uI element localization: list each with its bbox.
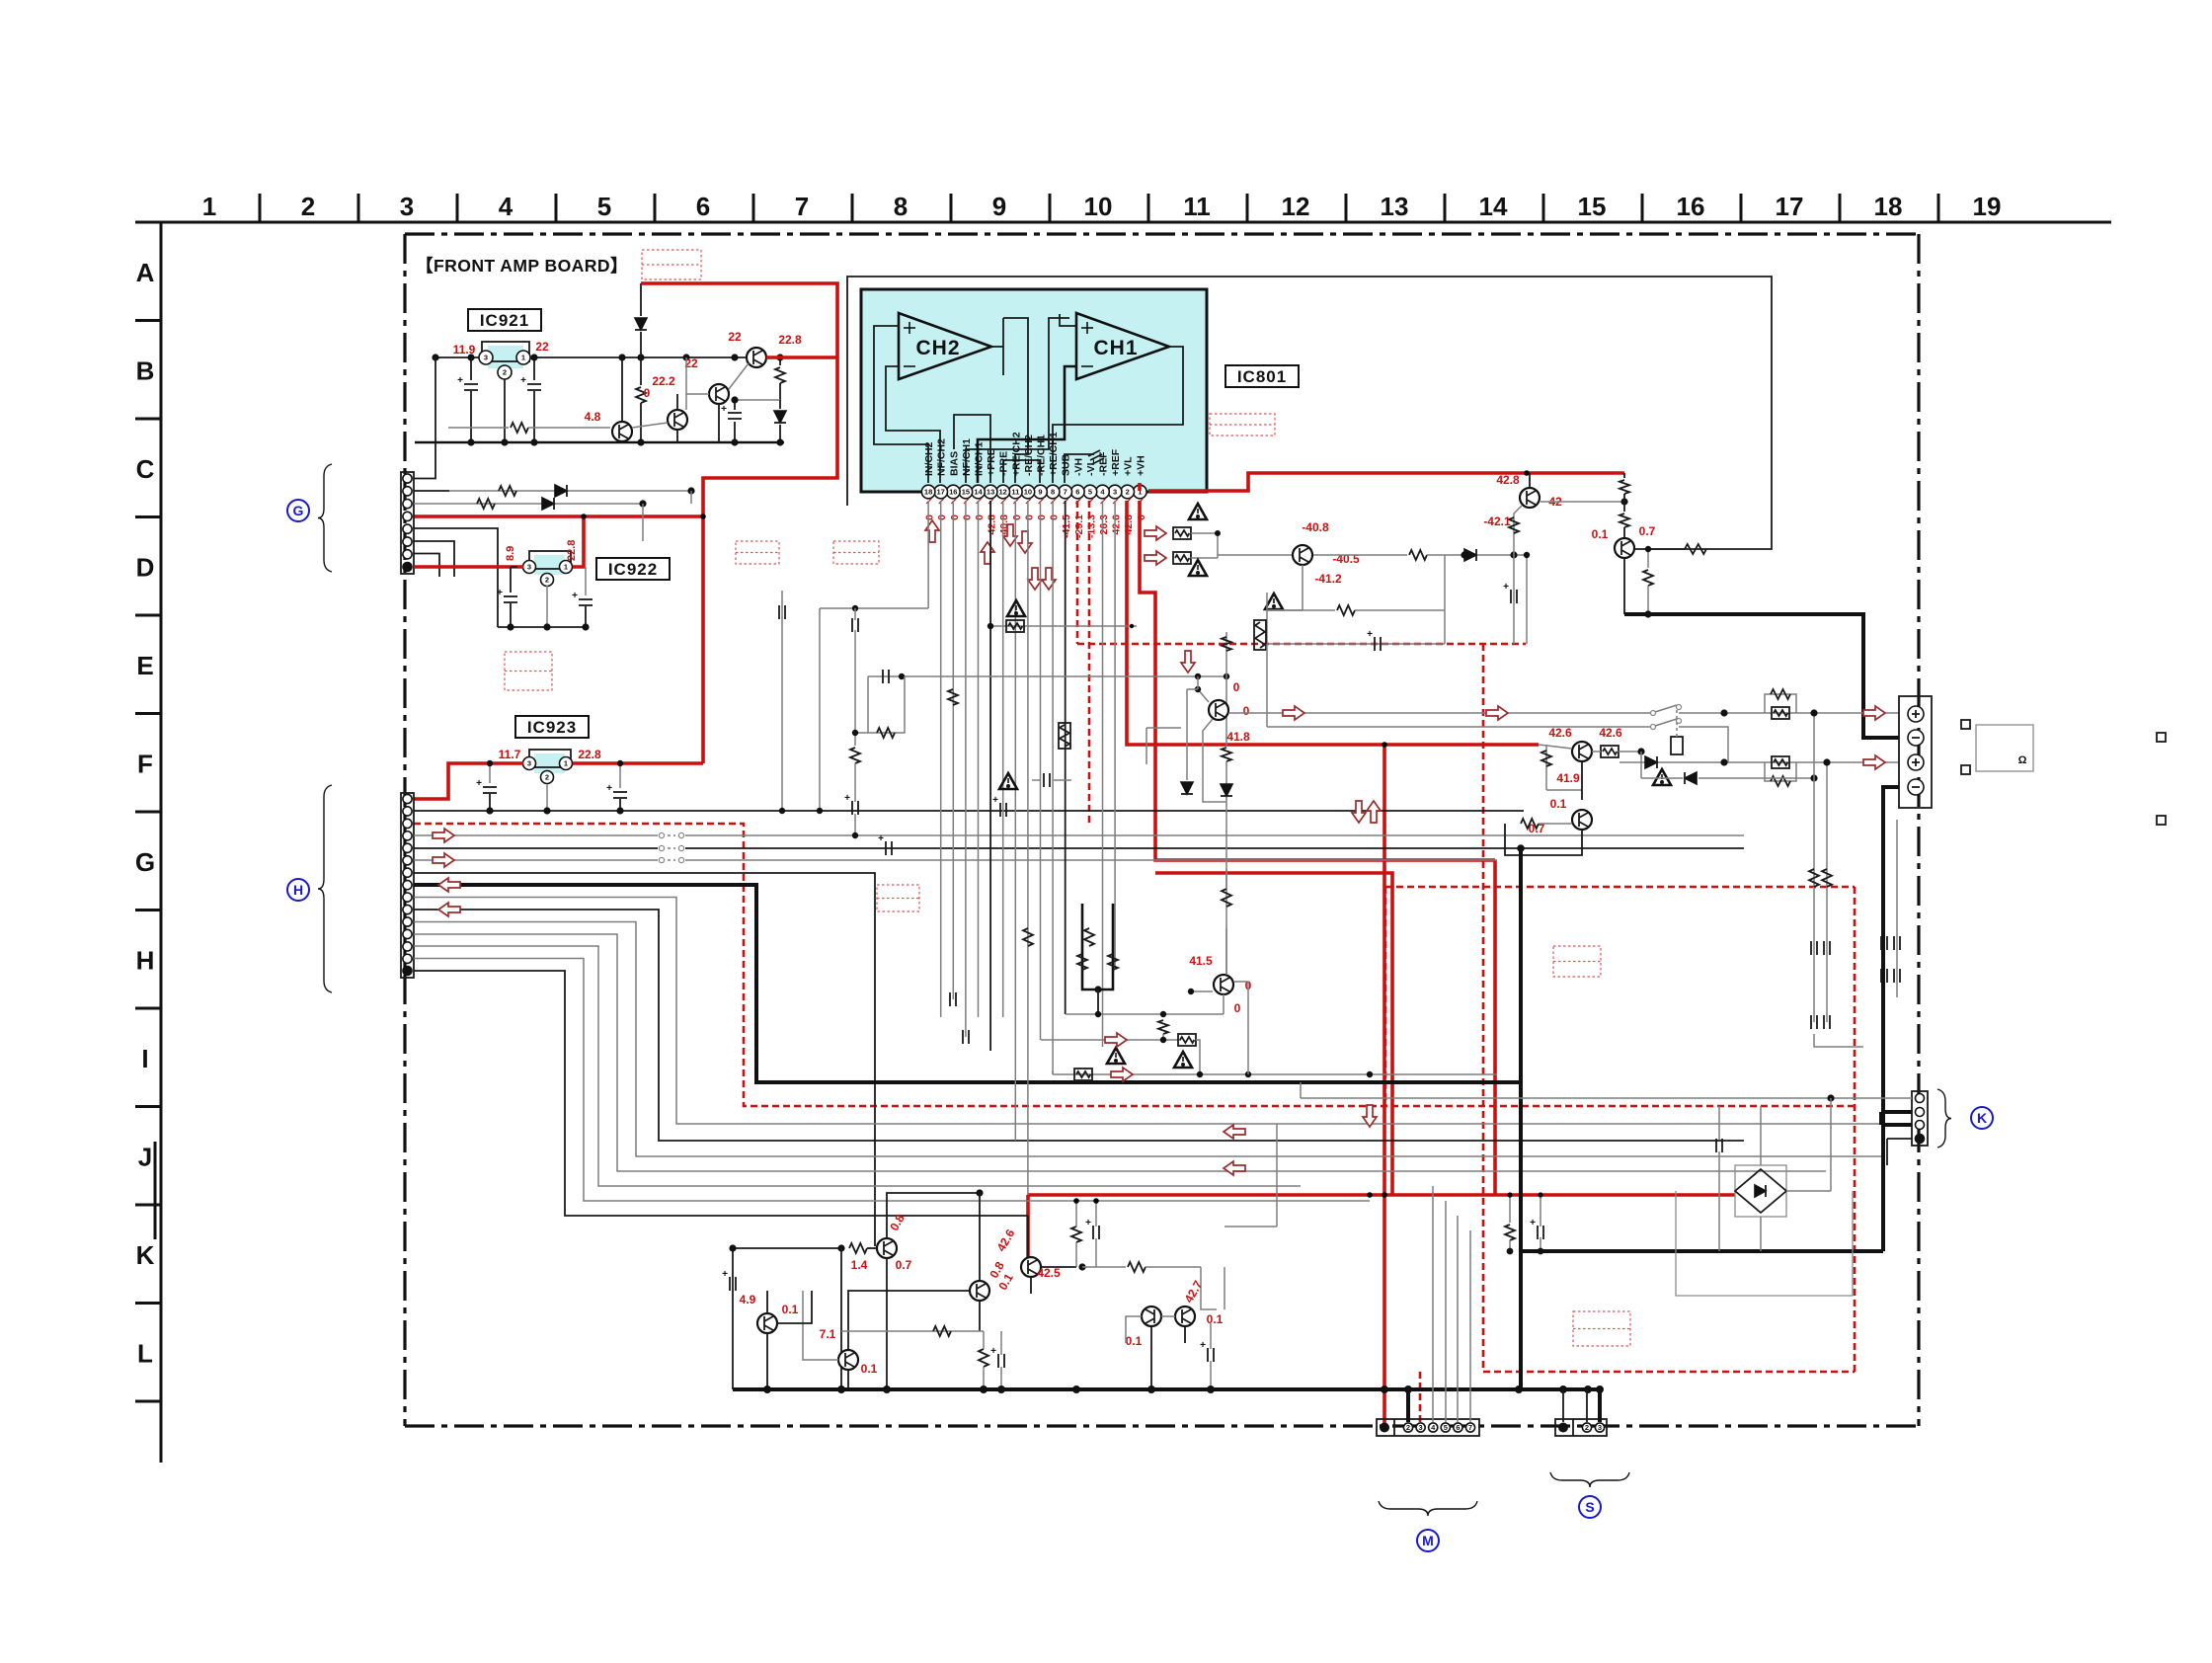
frame: J row bracket	[154, 1142, 157, 1239]
svg-text:J: J	[138, 1143, 152, 1172]
42.8 emitter chain	[1514, 506, 1522, 644]
svg-text:+: +	[520, 375, 526, 386]
svg-text:0.7: 0.7	[1639, 524, 1656, 538]
svg-text:+: +	[1085, 1218, 1091, 1228]
IC801 internal wiring CH2	[874, 326, 928, 483]
transistor 42.6	[1572, 742, 1592, 761]
svg-text:5: 5	[1088, 488, 1092, 497]
svg-text:G: G	[135, 847, 155, 877]
svg-text:22.2: 22.2	[652, 374, 675, 388]
svg-text:IN/CH1: IN/CH1	[974, 441, 986, 476]
svg-text:3: 3	[1598, 1423, 1602, 1432]
resistor right of Q921d	[779, 357, 781, 365]
svg-text:6: 6	[696, 192, 710, 221]
svg-text:+: +	[497, 588, 503, 598]
H9 line	[414, 898, 1881, 1125]
H5 line	[414, 847, 1744, 849]
svg-text:NF/CH1: NF/CH1	[961, 438, 973, 476]
svg-text:12: 12	[1282, 192, 1310, 221]
svg-text:D: D	[136, 553, 155, 583]
svg-text:17: 17	[937, 488, 945, 497]
gray loop around bridge	[1676, 1191, 1853, 1296]
svg-text:11.7: 11.7	[499, 748, 521, 761]
boxed res right of 42.6	[1601, 746, 1619, 757]
boxed resistor on SUB column	[1059, 723, 1070, 749]
svg-text:5: 5	[597, 192, 611, 221]
H4 line	[414, 834, 1744, 836]
x866 column network	[820, 607, 928, 609]
svg-text:0: 0	[949, 515, 961, 520]
svg-text:7: 7	[1064, 488, 1067, 497]
speaker connector box	[1899, 696, 1932, 808]
IC801 internal wiring CH1	[1060, 314, 1076, 326]
red wire +VL down	[1127, 501, 1539, 745]
left arrows mid board	[1224, 1125, 1245, 1139]
caps near K	[1715, 1139, 1717, 1152]
mid resistors x965	[948, 689, 958, 705]
IC801 internal ground	[1065, 454, 1094, 483]
K connector	[1912, 1091, 1928, 1146]
svg-text:1: 1	[202, 192, 216, 221]
rc pair above 42.5	[1071, 1227, 1081, 1242]
svg-text:15: 15	[962, 488, 970, 497]
svg-text:-PRE: -PRE	[998, 451, 1010, 476]
M connector strip	[1377, 1419, 1479, 1436]
svg-text:+RE/CH2: +RE/CH2	[1010, 432, 1022, 476]
svg-text:0.1: 0.1	[1126, 1334, 1143, 1348]
svg-text:9: 9	[992, 192, 1006, 221]
svg-text:-VH: -VH	[1072, 458, 1084, 476]
IC922 caps and bus	[510, 567, 512, 593]
base resistor row 4.8	[448, 427, 509, 429]
pink boxes	[642, 250, 701, 279]
svg-text:0: 0	[1036, 515, 1048, 520]
thick black y=1267	[1519, 848, 1523, 1389]
H7 line	[414, 873, 875, 1246]
svg-text:+: +	[992, 795, 998, 806]
IC801 label box	[1225, 365, 1299, 387]
svg-text:42.6: 42.6	[1111, 515, 1123, 535]
line 2 to speaker plus2	[1267, 726, 1651, 728]
connector H strip	[401, 793, 414, 978]
bus break circles	[658, 832, 685, 838]
speaker icon	[1961, 720, 1970, 729]
svg-text:-41.5: -41.5	[1061, 515, 1072, 538]
caps IC921	[470, 357, 472, 380]
transistor 42.8 top right	[1520, 488, 1540, 508]
right edge small squares	[2157, 733, 2166, 742]
svg-text:10: 10	[1084, 192, 1113, 221]
svg-text:-40.8: -40.8	[1302, 520, 1329, 534]
resistor pair 1	[1765, 694, 1796, 713]
svg-text:K: K	[136, 1240, 155, 1270]
connector G strip	[401, 472, 414, 574]
IC922 red feed	[414, 565, 523, 569]
IC801 outer wire rectangle	[847, 277, 1772, 549]
transistor 0.1/0.7	[1615, 538, 1634, 558]
relay	[1671, 737, 1683, 754]
svg-text:42.6: 42.6	[1548, 726, 1572, 740]
pin column drops	[927, 501, 929, 608]
frame: top ruler line	[135, 221, 2111, 224]
svg-text:L: L	[137, 1339, 153, 1369]
svg-text:9: 9	[1038, 488, 1042, 497]
vertical from H9 line down	[1276, 1124, 1278, 1227]
transistor 41.5	[1214, 975, 1233, 994]
IC801 cyan body	[861, 289, 1207, 492]
H12 line	[414, 934, 1826, 1171]
svg-text:0.1: 0.1	[861, 1362, 878, 1376]
svg-text:16: 16	[949, 488, 957, 497]
svg-text:+: +	[1367, 629, 1373, 640]
H8 thick line	[414, 885, 1521, 1082]
svg-text:IC923: IC923	[527, 718, 577, 737]
S brace	[1550, 1472, 1629, 1487]
svg-text:+: +	[572, 591, 578, 601]
svg-text:7: 7	[1468, 1423, 1472, 1432]
svg-text:42.6: 42.6	[1599, 726, 1622, 740]
svg-text:0: 0	[1243, 704, 1250, 718]
svg-text:K: K	[1977, 1110, 1987, 1126]
svg-text:0: 0	[644, 386, 651, 400]
svg-text:8.9: 8.9	[505, 546, 516, 561]
svg-text:2: 2	[301, 192, 315, 221]
svg-text:1: 1	[521, 354, 525, 362]
wire IC921 left	[435, 356, 479, 358]
svg-text:13: 13	[1381, 192, 1409, 221]
right column resistors x1645	[1623, 473, 1625, 478]
right columns resistors caps	[1813, 713, 1815, 1022]
svg-text:-13.3: -13.3	[1085, 515, 1097, 538]
warning triangles mid	[1189, 504, 1207, 519]
H blue letter	[287, 879, 309, 901]
red wire G4 feed	[414, 515, 703, 518]
svg-text:SUB: SUB	[1061, 453, 1072, 476]
warning + diode right	[1653, 769, 1671, 785]
svg-text:3: 3	[400, 192, 414, 221]
svg-text:0: 0	[936, 515, 948, 520]
svg-text:4.8: 4.8	[585, 410, 601, 424]
svg-text:0: 0	[1233, 680, 1240, 694]
svg-text:S: S	[1585, 1499, 1594, 1515]
op-amp CH1	[1076, 313, 1169, 379]
zener + cap right column	[734, 400, 736, 410]
G blue letter	[287, 500, 309, 521]
svg-text:2: 2	[1585, 1423, 1589, 1432]
svg-text:16: 16	[1677, 192, 1705, 221]
cluster mid rc	[841, 1330, 984, 1332]
transistor 0.1/0.7 low	[1572, 810, 1592, 830]
snubber res/cap on bridge feed	[1509, 1195, 1511, 1223]
svg-text:+: +	[722, 1269, 728, 1280]
T 0.8 b	[970, 1281, 989, 1301]
svg-text:CH1: CH1	[1093, 337, 1138, 359]
IC923 label box	[515, 716, 589, 738]
svg-text:6: 6	[1456, 1423, 1460, 1432]
transistor 41.8	[1209, 700, 1228, 720]
board border dash-dot	[405, 232, 1919, 235]
red wire to M connector	[1382, 745, 1386, 1425]
svg-text:+: +	[606, 783, 612, 794]
svg-text:22.8: 22.8	[578, 748, 601, 761]
G brace	[318, 464, 332, 572]
svg-text:F: F	[137, 750, 153, 779]
M wires	[1406, 1389, 1410, 1422]
svg-text:+: +	[476, 778, 482, 789]
svg-text:Ω: Ω	[2018, 754, 2027, 766]
svg-text:0: 0	[924, 515, 936, 520]
diode and resistor column x=649	[640, 283, 642, 316]
svg-text:0: 0	[1023, 515, 1035, 520]
svg-text:17: 17	[1776, 192, 1804, 221]
svg-text:0: 0	[961, 515, 973, 520]
svg-text:11: 11	[1183, 192, 1211, 221]
K brace	[1937, 1089, 1951, 1148]
svg-text:0: 0	[1234, 1001, 1241, 1015]
H14 line	[414, 959, 1370, 1202]
svg-text:22: 22	[728, 330, 742, 344]
svg-text:2: 2	[503, 368, 507, 377]
svg-text:7.1: 7.1	[820, 1327, 836, 1341]
T 7.1	[838, 1350, 858, 1370]
svg-text:+PRE: +PRE	[986, 448, 997, 476]
svg-text:+: +	[1200, 1340, 1206, 1351]
svg-text:+: +	[721, 404, 727, 415]
H15 line	[414, 971, 1028, 1216]
svg-text:42.8: 42.8	[987, 515, 998, 535]
svg-text:3: 3	[1419, 1423, 1423, 1432]
svg-text:A: A	[136, 258, 155, 287]
svg-text:0.1: 0.1	[1592, 527, 1609, 541]
svg-text:41.9: 41.9	[1556, 771, 1580, 785]
svg-text:-REF: -REF	[1098, 451, 1110, 476]
IC921 label box	[468, 309, 541, 331]
svg-text:+REF: +REF	[1110, 448, 1122, 476]
svg-text:-RE/CH1: -RE/CH1	[1036, 435, 1048, 476]
svg-text:+: +	[878, 833, 884, 844]
caps columns below speaker	[1883, 820, 1885, 997]
svg-text:H: H	[293, 882, 303, 898]
red dashed -VH line	[1076, 501, 1079, 644]
K wires	[1301, 1097, 1912, 1099]
svg-text:IC921: IC921	[480, 311, 529, 330]
H11 line	[414, 922, 1881, 1157]
bottom bus IC921	[415, 441, 784, 444]
IC921 regulator body	[488, 346, 523, 368]
svg-text:C: C	[136, 454, 155, 484]
svg-text:+: +	[1503, 582, 1509, 593]
svg-text:+VH: +VH	[1135, 455, 1146, 476]
H13 line	[414, 946, 1301, 1186]
svg-text:IC922: IC922	[608, 560, 658, 579]
row y=1088 with boxres	[1053, 1073, 1497, 1075]
thick U loop above row	[1082, 904, 1113, 990]
svg-text:0.1: 0.1	[1207, 1312, 1224, 1326]
svg-text:2: 2	[545, 773, 549, 782]
svg-text:13: 13	[987, 488, 994, 497]
red dashed upper right box	[1385, 886, 1855, 889]
transistor Q921b 22.2	[668, 410, 687, 430]
svg-text:12: 12	[999, 488, 1007, 497]
svg-text:8: 8	[894, 192, 908, 221]
-41.2 network	[1267, 565, 1303, 610]
svg-text:+: +	[990, 1346, 996, 1357]
IC923 body	[534, 753, 565, 773]
svg-text:5: 5	[1444, 1423, 1448, 1432]
svg-text:0: 0	[974, 515, 986, 520]
H6 line	[414, 859, 1497, 861]
boxres row y=634	[990, 625, 1137, 627]
svg-text:E: E	[136, 651, 153, 680]
svg-text:41.8: 41.8	[1226, 730, 1250, 744]
pink dotted box below IC922	[505, 652, 552, 690]
svg-text:3: 3	[527, 759, 531, 768]
IC801 pins 1-18	[1134, 485, 1147, 499]
red wire mid pair	[1140, 501, 1495, 860]
frame: row ticks	[135, 319, 161, 322]
svg-text:22.8: 22.8	[566, 540, 578, 561]
svg-text:+: +	[1530, 1218, 1536, 1228]
T 42.6/42.5	[1021, 1257, 1041, 1277]
G pin wires	[414, 442, 435, 479]
svg-text:1.4: 1.4	[851, 1258, 868, 1272]
resistor pair 2	[1765, 762, 1796, 781]
transistor Q921d 22.8	[747, 348, 766, 367]
transistor Q921a	[612, 422, 632, 441]
red dashed H3 long line	[414, 824, 1855, 1106]
row y=1053 with boxres	[1041, 1039, 1181, 1041]
IC923 caps bus	[489, 763, 491, 783]
diode column x1202	[1186, 689, 1188, 780]
svg-text:BIAS: BIAS	[948, 451, 960, 476]
svg-text:-29.1: -29.1	[1073, 515, 1085, 538]
svg-text:18: 18	[924, 488, 932, 497]
svg-text:6: 6	[1075, 488, 1079, 497]
svg-text:0.1: 0.1	[1550, 797, 1567, 811]
frame: left border line	[160, 222, 163, 1463]
svg-text:22.8: 22.8	[778, 333, 802, 347]
IC923 red wires	[414, 763, 523, 799]
mid caps column	[1043, 773, 1045, 787]
svg-text:3: 3	[484, 354, 488, 362]
svg-text:-VL: -VL	[1085, 459, 1097, 477]
svg-text:IC801: IC801	[1237, 367, 1287, 386]
mid right resistor boxes	[1145, 526, 1166, 540]
red dashed box bottom	[1482, 644, 1485, 1372]
M brace	[1379, 1501, 1477, 1516]
T pair 42.7	[1142, 1307, 1161, 1326]
42.6 base resistor down	[1545, 745, 1547, 790]
svg-text:11: 11	[1011, 488, 1019, 497]
svg-text:2: 2	[1126, 488, 1130, 497]
svg-text:22: 22	[535, 340, 549, 354]
IC922 body	[534, 555, 565, 575]
IC922 label box	[596, 558, 670, 580]
H brace	[318, 785, 332, 992]
T 4.9	[757, 1313, 777, 1333]
svg-text:IN/CH2: IN/CH2	[923, 441, 935, 476]
svg-text:2: 2	[1406, 1423, 1410, 1432]
svg-text:42.5: 42.5	[1037, 1266, 1061, 1280]
svg-text:0: 0	[1049, 515, 1061, 520]
svg-text:15: 15	[1578, 192, 1607, 221]
svg-text:42.8: 42.8	[1496, 473, 1520, 487]
svg-text:+: +	[844, 793, 850, 804]
svg-text:-RE/CH2: -RE/CH2	[1023, 435, 1035, 476]
svg-text:18: 18	[1874, 192, 1903, 221]
svg-text:7: 7	[795, 192, 809, 221]
red arrows below IC801	[925, 520, 939, 542]
svg-text:B: B	[136, 356, 155, 386]
bridge rectifier	[1735, 1165, 1786, 1217]
svg-text:41.5: 41.5	[1189, 954, 1213, 968]
frame: column ticks	[259, 194, 262, 222]
svg-text:0.7: 0.7	[896, 1258, 912, 1272]
IC921 pin2 down	[504, 379, 506, 442]
svg-text:4: 4	[499, 192, 513, 221]
svg-text:-41.2: -41.2	[1314, 572, 1342, 586]
svg-text:8: 8	[1051, 488, 1055, 497]
bridge connections	[1786, 1190, 1831, 1192]
T 0.8/1.4/0.7	[849, 1243, 867, 1253]
RC block y685	[868, 675, 1226, 677]
svg-text:CH2: CH2	[915, 337, 960, 359]
svg-text:19: 19	[1973, 192, 2002, 221]
svg-text:10: 10	[1024, 488, 1032, 497]
bottom thick bus	[733, 1387, 1600, 1391]
svg-text:0: 0	[1011, 515, 1023, 520]
svg-text:1: 1	[564, 759, 568, 768]
svg-text:26.3: 26.3	[1098, 515, 1110, 535]
red dashed M pin3	[1419, 1372, 1422, 1425]
svg-text:-42.1: -42.1	[1483, 515, 1511, 528]
thick black to speaker minus1	[1624, 614, 1899, 738]
svg-text:14: 14	[1479, 192, 1508, 221]
svg-text:NF/CH2: NF/CH2	[936, 438, 948, 476]
svg-text:H: H	[136, 946, 155, 976]
red wire pin1 VH to right	[1148, 473, 1624, 491]
transistor Q921c 22	[709, 384, 729, 404]
svg-text:-40.5: -40.5	[1332, 552, 1360, 566]
S connector strip	[1555, 1419, 1607, 1436]
red wire top loop	[641, 283, 837, 763]
svg-text:+: +	[457, 375, 463, 386]
x1242 column	[1225, 632, 1227, 676]
line y722 to speaker plus1	[1229, 712, 1651, 714]
H2 bus line	[414, 810, 1524, 812]
wire IC921 right bus	[530, 356, 747, 358]
svg-text:42.8: 42.8	[1123, 515, 1135, 535]
transistor -40.8	[1293, 545, 1312, 565]
svg-text:14: 14	[974, 488, 983, 497]
caps on drops	[949, 992, 951, 1006]
svg-text:【FRONT AMP BOARD】: 【FRONT AMP BOARD】	[416, 256, 628, 276]
bottom cluster left rail	[732, 1248, 734, 1389]
res to 42.7 pair	[1082, 1266, 1126, 1268]
svg-text:G: G	[293, 503, 304, 518]
svg-text:+VL: +VL	[1123, 456, 1135, 476]
svg-text:I: I	[141, 1044, 148, 1073]
thick black from speaker minus2	[1883, 787, 1899, 1251]
red wire bottom to bridge	[1028, 1193, 1735, 1197]
H10 line	[414, 910, 1744, 1141]
svg-text:3: 3	[1113, 488, 1117, 497]
svg-text:4.9: 4.9	[740, 1293, 756, 1307]
svg-text:3: 3	[527, 563, 531, 572]
svg-text:0.1: 0.1	[782, 1303, 799, 1316]
op-amp CH2	[899, 313, 991, 379]
svg-text:+RE/CH1: +RE/CH1	[1048, 432, 1060, 476]
